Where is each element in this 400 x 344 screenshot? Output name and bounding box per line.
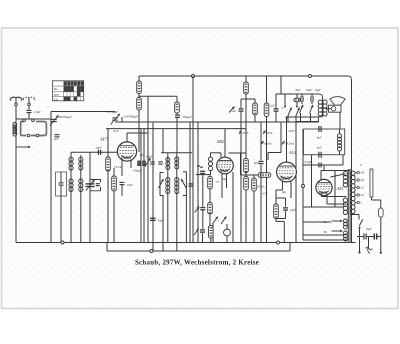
svg-text:AF7: AF7: [99, 137, 108, 142]
svg-text:0,5μF: 0,5μF: [305, 160, 312, 164]
svg-text:L₁: L₁: [281, 106, 285, 110]
svg-text:0,1μF: 0,1μF: [146, 156, 153, 159]
svg-text:4μF: 4μF: [317, 136, 322, 140]
svg-text:220V: 220V: [266, 131, 274, 135]
svg-text:500μμF: 500μμF: [183, 115, 192, 119]
svg-text:AB2: AB2: [216, 139, 225, 144]
svg-text:100/300μμF: 100/300μμF: [58, 115, 72, 119]
svg-text:25μF: 25μF: [127, 183, 133, 187]
svg-text:100/300μμF: 100/300μμF: [124, 115, 138, 119]
svg-text:100μμF: 100μμF: [133, 170, 142, 173]
svg-text:8μF: 8μF: [254, 161, 259, 165]
svg-text:Schaub, 297W, Wechselstrom, 2: Schaub, 297W, Wechselstrom, 2 Kreise: [135, 260, 259, 267]
svg-text:2V 1A: 2V 1A: [114, 165, 121, 169]
svg-text:8μF: 8μF: [296, 88, 301, 92]
svg-text:30 mA: 30 mA: [257, 184, 265, 188]
svg-text:Ru: Ru: [53, 87, 58, 91]
svg-text:15μF: 15μF: [306, 88, 313, 92]
svg-text:1μF: 1μF: [270, 104, 275, 108]
svg-text:4,5mA: 4,5mA: [264, 141, 272, 145]
svg-text:Mg: Mg: [222, 178, 227, 181]
svg-text:15μF: 15μF: [315, 88, 322, 92]
svg-text:15μF: 15μF: [290, 208, 296, 212]
svg-text:AL4: AL4: [288, 150, 297, 155]
svg-text:4μF: 4μF: [317, 146, 322, 150]
svg-text:45V: 45V: [216, 181, 220, 184]
svg-text:50μF: 50μF: [366, 228, 372, 231]
svg-text:AZ1: AZ1: [336, 186, 344, 191]
svg-text:45V: 45V: [140, 154, 145, 157]
svg-text:4μF: 4μF: [54, 137, 59, 141]
svg-text:2μμF: 2μμF: [96, 146, 102, 150]
